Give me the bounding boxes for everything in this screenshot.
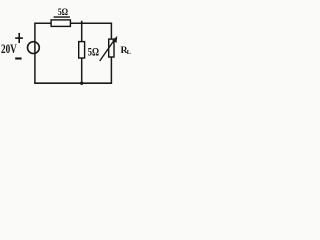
svg-text:5Ω: 5Ω — [88, 44, 100, 58]
arrow of variable resistor — [100, 40, 115, 61]
svg-text:5Ω: 5Ω — [58, 7, 69, 18]
plus sign — [15, 37, 23, 39]
svg-text:20V: 20V — [1, 41, 17, 56]
svg-text:L: L — [127, 49, 132, 56]
wire top — [35, 22, 112, 24]
node junction bottom — [80, 82, 83, 85]
node junction top — [81, 22, 83, 24]
wire bottom — [34, 82, 112, 84]
resistor 5ohm series (top) — [51, 20, 70, 27]
resistor 5ohm shunt (middle) — [79, 42, 85, 58]
wire left — [34, 23, 36, 84]
wire middle branch — [81, 21, 83, 83]
wire right — [110, 23, 112, 84]
minus sign — [15, 57, 21, 59]
resistor RL (variable, right) — [109, 39, 114, 57]
source V1 20V — [28, 42, 40, 54]
smudge underline — [54, 16, 70, 18]
